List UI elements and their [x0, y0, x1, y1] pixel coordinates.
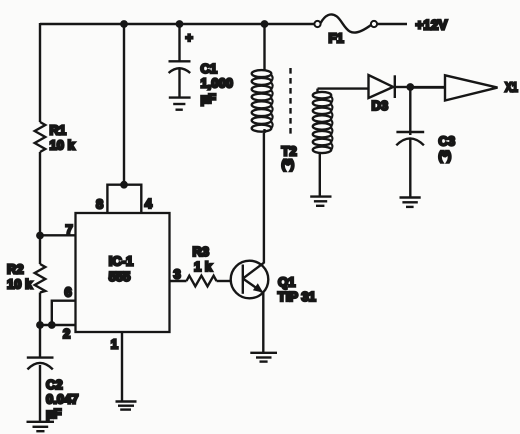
wire T2 secondary to D3 — [318, 87, 369, 89]
transistor Q1 — [231, 261, 269, 299]
wire Q1 collector up to T2 — [263, 133, 265, 263]
svg-text:IC-1: IC-1 — [109, 253, 134, 268]
fuse F1 — [314, 14, 377, 32]
wire left rail mid — [39, 152, 41, 264]
svg-text:µF: µF — [201, 91, 216, 106]
svg-text:1: 1 — [111, 337, 118, 352]
wire pin 7 — [40, 234, 76, 236]
wire pin 1 — [121, 332, 123, 401]
svg-text:8: 8 — [96, 197, 103, 212]
transformer T2 core dashed — [289, 68, 291, 135]
node junction C1 — [176, 20, 184, 28]
ground T2 secondary — [310, 197, 331, 206]
node pin7 junction — [36, 232, 44, 240]
wire left rail upper — [39, 23, 41, 122]
svg-text:+: + — [186, 31, 193, 45]
node D3-C3-X1 — [406, 83, 414, 91]
svg-text:C1: C1 — [201, 61, 218, 76]
resistor R2 — [35, 264, 46, 293]
resistor R1 — [35, 122, 46, 152]
wire R3 to Q1 base — [217, 280, 231, 282]
transformer T2 secondary winding — [313, 89, 333, 196]
node junction top-left to IC bracket — [120, 20, 128, 28]
wire pins 8-4 bracket — [107, 185, 141, 213]
svg-text:(*): (*) — [439, 149, 452, 163]
transformer T2 primary winding — [252, 24, 273, 133]
node junction pin6 bracket — [48, 321, 56, 329]
svg-text:7: 7 — [66, 222, 73, 237]
wire D3 to node — [395, 86, 407, 88]
wire from top rail down to IC pins 8-4 bracket — [123, 24, 125, 185]
wire top rail — [40, 23, 314, 25]
svg-text:1 k: 1 k — [194, 259, 213, 274]
svg-text:10 k: 10 k — [50, 138, 76, 153]
capacitor C2 — [27, 325, 54, 421]
wire fuse to +12V — [377, 23, 407, 25]
svg-text:R3: R3 — [193, 244, 210, 259]
wire left rail lower — [39, 293, 41, 326]
svg-text:555: 555 — [109, 269, 131, 284]
svg-text:4: 4 — [145, 196, 153, 211]
output X1 transducer — [445, 75, 498, 100]
svg-text:(*): (*) — [282, 157, 295, 171]
wire node to X1 — [410, 86, 445, 89]
svg-text:X1: X1 — [505, 80, 518, 95]
svg-text:+12V: +12V — [416, 18, 448, 33]
svg-text:TIP 31: TIP 31 — [278, 289, 316, 304]
svg-text:D3: D3 — [372, 98, 389, 113]
svg-text:T2: T2 — [282, 144, 297, 159]
emitter arrowhead Q1 — [253, 283, 263, 292]
svg-text:10 k: 10 k — [7, 277, 33, 292]
op IC-1 555 timer box — [76, 213, 170, 332]
ground C1 — [169, 98, 191, 110]
resistor R3 — [187, 276, 217, 287]
svg-text:3: 3 — [174, 267, 181, 282]
wire pin 6 bracket — [52, 301, 76, 325]
svg-text:µF: µF — [46, 406, 61, 421]
wire pin 2 — [40, 324, 76, 326]
wire pin 3 — [170, 280, 187, 282]
svg-text:6: 6 — [65, 285, 72, 300]
ground C3 — [400, 198, 421, 207]
wire Q1 emitter down — [262, 292, 264, 352]
svg-text:2: 2 — [63, 326, 70, 341]
svg-text:R1: R1 — [50, 123, 67, 138]
svg-text:F1: F1 — [329, 30, 344, 45]
capacitor C3 — [396, 87, 424, 197]
svg-text:C3: C3 — [439, 134, 456, 149]
svg-text:0.047: 0.047 — [46, 391, 79, 406]
svg-text:R2: R2 — [7, 262, 24, 277]
node junction R2-C2-pin2 — [36, 321, 44, 329]
svg-text:Q1: Q1 — [278, 275, 295, 290]
ground pin 1 — [116, 402, 137, 410]
diode D3 — [369, 75, 395, 98]
node junction T2 primary — [261, 20, 269, 28]
node bracket top — [120, 181, 128, 189]
svg-text:C2: C2 — [46, 377, 63, 392]
ground C2 — [27, 422, 55, 431]
capacitor C1 — [169, 24, 191, 97]
ground Q1 emitter — [250, 353, 277, 362]
svg-text:1,000: 1,000 — [201, 75, 234, 90]
